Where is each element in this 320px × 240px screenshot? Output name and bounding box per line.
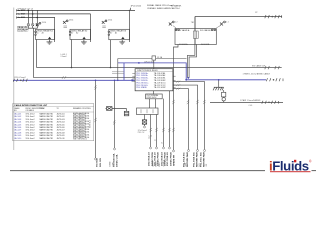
solenoid symbols <box>142 120 146 124</box>
block 3 contact symbol <box>102 20 107 24</box>
spare pair stubs <box>112 71 125 73</box>
feeder fuse FC <box>36 23 39 26</box>
junction box rows right (black) <box>154 72 167 89</box>
svg-text:XV-0001B: XV-0001B <box>201 44 210 46</box>
ground at panel <box>213 80 224 91</box>
lower terminal strip box <box>137 108 159 115</box>
block 1 ground stem <box>48 40 50 42</box>
top right line cable markers <box>265 15 282 18</box>
block 1 drop wire <box>36 40 38 68</box>
cable marks middle drops <box>150 128 175 132</box>
junction box right edge ticks <box>173 76 176 88</box>
block 3 coil mark <box>121 37 124 39</box>
svg-text:SOL VALVE B: SOL VALVE B <box>200 29 213 32</box>
svg-text:MARSH CAB TB1: MARSH CAB TB1 <box>40 129 54 132</box>
svg-text:OVERALL SHIELD ARMD: OVERALL SHIELD ARMD <box>147 7 171 10</box>
block 3 supply drop from bus 1 <box>129 10 131 42</box>
svg-text:1Px1.5mm2: 1Px1.5mm2 <box>26 138 35 140</box>
feeder fuse FB <box>31 23 34 26</box>
svg-text:DWN: DWN <box>110 161 112 166</box>
svg-text:DIST.BD 24V: DIST.BD 24V <box>18 28 29 31</box>
fuse above junction box <box>144 56 163 69</box>
junction box left edge ticks <box>132 74 135 82</box>
panel right contact symbol <box>220 21 225 25</box>
top middle cable note <box>131 4 183 10</box>
svg-text:TO MARSH.: TO MARSH. <box>171 4 183 7</box>
svg-text:iFluids: iFluids <box>269 158 309 173</box>
block 1 contact symbol <box>36 22 41 26</box>
blue loop from junction box <box>173 63 266 80</box>
svg-text:1Px1.5mm2: 1Px1.5mm2 <box>26 114 35 116</box>
block 2 coil mark <box>83 37 86 39</box>
svg-text:C-05: C-05 <box>249 105 253 107</box>
feeder wire drop B <box>32 10 34 23</box>
neutral wire cable marks <box>62 76 66 79</box>
svg-text:1Px1.5mm2: 1Px1.5mm2 <box>26 127 35 129</box>
panel blocks 4-5 enclosure <box>175 29 216 45</box>
svg-text:ZSC-001B LS: ZSC-001B LS <box>167 152 169 166</box>
svg-text:JB-C-004: JB-C-004 <box>14 122 21 124</box>
svg-text:JB-C-007: JB-C-007 <box>14 130 21 132</box>
junction box JB-01 <box>132 69 175 91</box>
svg-text:A1 · A2: A1 · A2 <box>36 32 44 35</box>
surge arrester <box>222 90 226 102</box>
cable schedule table <box>13 104 94 141</box>
svg-text:PSL-001B SIG: PSL-001B SIG <box>193 152 195 167</box>
svg-text:i: i <box>269 158 273 173</box>
bus line 2 <box>17 13 91 15</box>
svg-text:APPR: APPR <box>152 160 155 166</box>
top right line <box>195 16 282 18</box>
svg-text:1Px1.5mm2: 1Px1.5mm2 <box>26 124 35 126</box>
panel left terminals <box>175 29 179 31</box>
block 2 drop wire <box>71 40 73 68</box>
table header <box>14 107 91 112</box>
neutral return wire <box>34 77 136 79</box>
rotated field tags <box>96 152 206 167</box>
svg-text:MARSH CAB TB1: MARSH CAB TB1 <box>40 115 54 118</box>
relay block 1 <box>35 18 55 68</box>
svg-text:TB-1 13 14 SP: TB-1 13 14 SP <box>154 87 167 89</box>
svg-text:CHK: CHK <box>113 162 115 167</box>
strip wire junction dots <box>71 67 73 69</box>
svg-text:FROM: FROM <box>40 108 46 110</box>
bus line 1 <box>17 9 136 11</box>
svg-text:1Px1.5mm2: 1Px1.5mm2 <box>26 119 35 121</box>
svg-text:JB-C-008: JB-C-008 <box>14 132 21 134</box>
svg-text:MARSH CAB TB1: MARSH CAB TB1 <box>40 131 54 134</box>
block 3 ground <box>119 42 125 44</box>
svg-text:MARSH CAB TB1: MARSH CAB TB1 <box>40 134 54 137</box>
svg-text:JB-TX-006: JB-TX-006 <box>57 127 65 129</box>
svg-text:MARSH CAB TB1: MARSH CAB TB1 <box>40 113 54 116</box>
blue cable arrow <box>132 79 135 81</box>
svg-text:L+·002: L+·002 <box>18 13 26 15</box>
svg-text:DATE: DATE <box>155 161 158 167</box>
svg-text:1Px1.5mm2: 1Px1.5mm2 <box>26 116 35 118</box>
field cable drops <box>95 80 97 158</box>
svg-text:A1 · A2: A1 · A2 <box>71 32 79 35</box>
panel feed vertical through <box>194 17 196 45</box>
block 3 drop wire <box>110 40 112 68</box>
feeder fuse FA <box>27 23 30 26</box>
field blue cable dot <box>20 80 22 82</box>
svg-text:ZSO-001A LS: ZSO-001A LS <box>148 152 151 166</box>
svg-text:13 14: 13 14 <box>69 20 74 22</box>
field drop 2 cable marks <box>113 121 115 125</box>
elbow cable marks <box>176 81 180 90</box>
gray feed vertical <box>117 59 119 81</box>
blue right cable dot <box>273 79 275 81</box>
junction box rows left (blue) <box>136 72 148 89</box>
svg-text:13 14: 13 14 <box>108 20 113 22</box>
svg-text:PR-4 SPARE: PR-4 SPARE <box>136 86 147 89</box>
cable down elbows from junction box <box>173 82 205 150</box>
svg-text:1Px1.5mm2: 1Px1.5mm2 <box>26 130 35 132</box>
svg-text:JB-TX-009: JB-TX-009 <box>57 135 65 137</box>
svg-text:A1 · A2: A1 · A2 <box>110 32 118 35</box>
field drop 2 tee <box>106 108 127 110</box>
block 2 contact symbol <box>63 20 68 24</box>
svg-text:L+·001: L+·001 <box>18 10 26 12</box>
svg-text:MARSH CAB TB1: MARSH CAB TB1 <box>40 126 54 129</box>
field drop cables middle <box>144 115 146 127</box>
gray feed wire to fuse <box>118 58 152 60</box>
block 2 ground stem <box>83 40 85 42</box>
svg-text:JB-C-002: JB-C-002 <box>14 116 21 118</box>
svg-text:XV-001A: XV-001A <box>96 158 99 167</box>
svg-text:NO.: NO. <box>14 110 18 112</box>
strip top wire cable markers <box>265 66 280 69</box>
block 1 supply drop from bus 3 <box>54 18 56 43</box>
panel barrier symbol <box>193 31 198 38</box>
svg-text:24VDC COIL: 24VDC COIL <box>116 153 119 167</box>
block 1 ground <box>47 42 53 44</box>
block 1 coil mark <box>48 37 51 39</box>
right cluster cable marks <box>172 100 205 104</box>
svg-text:1Px1.5mm2: 1Px1.5mm2 <box>26 132 35 134</box>
svg-text:JB-TX-002: JB-TX-002 <box>57 116 65 118</box>
blue loop left segment <box>118 62 173 64</box>
wires JB subbox to strip <box>149 99 151 108</box>
block 2 ground <box>81 42 87 44</box>
title block top line right part <box>312 170 317 172</box>
svg-text:1Px1.5mm2: 1Px1.5mm2 <box>26 135 35 137</box>
svg-text:JB-TX-004: JB-TX-004 <box>57 122 65 124</box>
ground dot on blue <box>218 79 220 81</box>
svg-text:1 2: 1 2 <box>226 22 229 24</box>
supply note box <box>17 26 29 32</box>
block 3 left terminals <box>108 31 110 36</box>
svg-text:JB-TX-005: JB-TX-005 <box>57 124 65 126</box>
feeder wire drop A <box>27 10 29 23</box>
svg-text:SOL 24V: SOL 24V <box>99 158 102 167</box>
svg-text:1 2: 1 2 <box>175 22 178 24</box>
panel left contact symbol <box>169 21 174 25</box>
svg-text:JB-TX-001: JB-TX-001 <box>57 114 65 116</box>
svg-text:TB1: TB1 <box>191 22 194 24</box>
relay block 3 <box>102 10 130 68</box>
svg-text:MARSH CAB TB1: MARSH CAB TB1 <box>40 118 54 121</box>
terminal strip top wire <box>37 67 282 69</box>
svg-text:JB-TX-010: JB-TX-010 <box>57 138 65 140</box>
block 1 left terminals <box>35 31 37 36</box>
block 2 supply drop from bus 2 <box>90 14 92 42</box>
iFluids logo <box>269 158 312 173</box>
svg-text:1Px1.5mm2: 1Px1.5mm2 <box>131 5 143 7</box>
svg-text:JB-C-006: JB-C-006 <box>14 127 21 129</box>
svg-text:12Px1.5mm2: 12Px1.5mm2 <box>14 77 27 79</box>
block 3 ground stem <box>121 40 123 42</box>
relay block 2 <box>63 14 91 68</box>
block 1 rect <box>36 29 55 39</box>
svg-text:SIG CABLE 12P: SIG CABLE 12P <box>252 65 266 68</box>
svg-text:REV: REV <box>159 162 161 167</box>
cable end terminators <box>95 126 206 160</box>
bus line start ticks <box>16 9 18 19</box>
solenoid box on tee <box>107 107 113 111</box>
svg-text:JB-C-001: JB-C-001 <box>14 114 21 116</box>
svg-text:STRIP 24VDC: STRIP 24VDC <box>146 97 157 99</box>
blue dot top <box>138 62 140 64</box>
svg-text:JB-TX-007: JB-TX-007 <box>57 130 65 132</box>
svg-text:JB-C-003: JB-C-003 <box>14 119 21 121</box>
svg-text:1 PAIR 1.5mm2 ARMD: 1 PAIR 1.5mm2 ARMD <box>240 99 261 102</box>
svg-text:CABLE INTERCONNECTION LIST: CABLE INTERCONNECTION LIST <box>14 104 48 107</box>
svg-text:SPARE PR: SPARE PR <box>173 155 176 166</box>
panel left drop wire <box>174 44 179 150</box>
svg-text:JB-C-005: JB-C-005 <box>14 124 21 126</box>
svg-text:12Px1.5 SIG: 12Px1.5 SIG <box>144 61 154 63</box>
panel pair wires down <box>188 44 195 78</box>
block 2 left terminals <box>69 31 71 36</box>
top right line dot <box>272 16 274 18</box>
title block top line <box>10 170 265 172</box>
field drop 1 cable marks <box>94 86 96 123</box>
bus line 3 <box>17 17 56 19</box>
table rows <box>14 112 89 141</box>
svg-text:24VDC PROX: 24VDC PROX <box>169 152 172 166</box>
bus 1 end up tick <box>129 8 131 11</box>
panel right terminals <box>212 29 216 31</box>
svg-text:JB-TX-003: JB-TX-003 <box>57 119 65 121</box>
svg-text:1 PAIR 1.5mm2 ARMD CABLE: 1 PAIR 1.5mm2 ARMD CABLE <box>243 72 271 75</box>
lower right cable <box>210 102 283 104</box>
junction dots on bus lines <box>28 10 30 12</box>
box below junction box <box>146 91 163 99</box>
feeder wire down to terminal strip <box>33 28 35 77</box>
svg-text:JB-C-009: JB-C-009 <box>14 135 21 137</box>
blue right cable markers <box>266 78 283 81</box>
svg-text:L+·003: L+·003 <box>18 17 26 19</box>
svg-text:MARSH CAB TB1: MARSH CAB TB1 <box>40 137 54 140</box>
svg-text:2.5mm2: 2.5mm2 <box>61 56 67 58</box>
svg-text:NOTE A-1: NOTE A-1 <box>88 120 91 128</box>
svg-text:DC SUPPLY: DC SUPPLY <box>18 30 28 32</box>
blue dot at 186 <box>185 79 187 81</box>
field blue cable <box>13 79 135 81</box>
feeder wire drop C <box>36 10 38 23</box>
svg-text:1Px1.5mm2: 1Px1.5mm2 <box>26 122 35 124</box>
svg-text:REMARKS / ROUTING: REMARKS / ROUTING <box>73 107 91 110</box>
lower terminal strip ticks <box>141 109 153 113</box>
svg-text:13 14: 13 14 <box>42 22 47 24</box>
blue vertical at box left <box>123 63 125 80</box>
svg-text:SCALE: SCALE <box>163 159 166 166</box>
lower right cable dot <box>268 102 270 104</box>
bus 1 continuation hook <box>129 10 130 11</box>
svg-text:MARSH CAB TB1: MARSH CAB TB1 <box>40 123 54 126</box>
feeder merge wire <box>28 26 33 28</box>
svg-text:PVC CU: PVC CU <box>138 132 145 134</box>
svg-text:JB-C-010: JB-C-010 <box>14 138 21 140</box>
svg-text:NO: NO <box>199 163 201 166</box>
svg-text:MARSH CAB TB1: MARSH CAB TB1 <box>40 121 54 124</box>
border left margin line <box>13 8 15 151</box>
title strip rotated text <box>110 159 209 166</box>
svg-text:XV-0001A: XV-0001A <box>179 43 188 46</box>
svg-text:OF CABLE: OF CABLE <box>26 109 35 112</box>
lower right cable markers <box>262 101 279 104</box>
svg-text:CAB TB-4: CAB TB-4 <box>171 7 181 10</box>
tee elbow to coil box <box>126 109 128 112</box>
svg-text:JB-TX-008: JB-TX-008 <box>57 132 65 134</box>
field blue cable markers <box>13 79 27 82</box>
svg-text:F1 2A: F1 2A <box>157 56 163 59</box>
